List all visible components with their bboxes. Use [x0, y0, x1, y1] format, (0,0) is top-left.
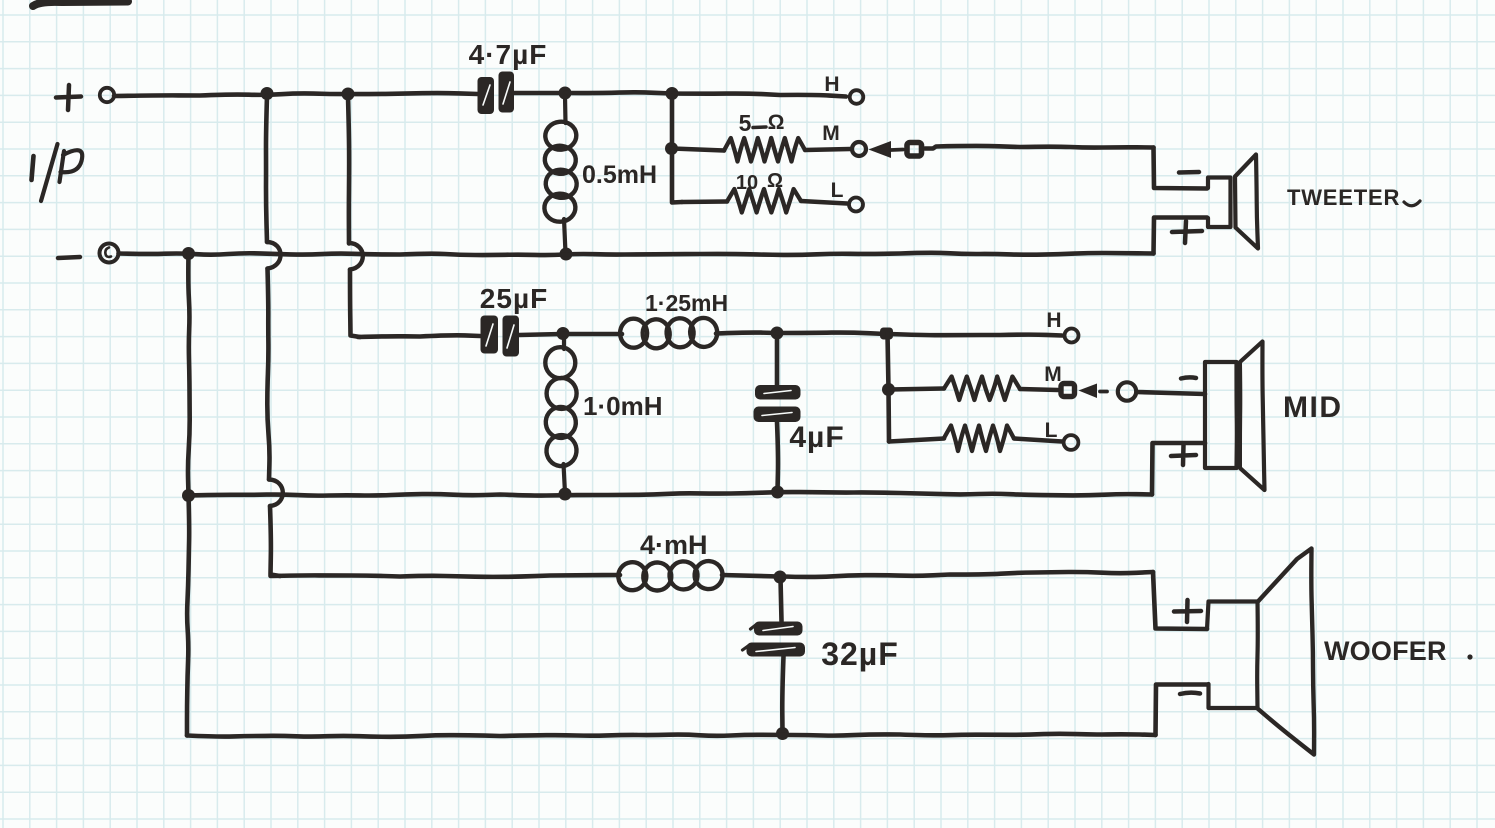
hop over minus rail at mid branch [349, 243, 363, 270]
wire: node T1 to node T2 [565, 92, 672, 93]
capacitor C2 25uF right plate [503, 316, 520, 357]
arrow head pointing left at tweeter M [869, 141, 892, 158]
wire: tweeter plus terminal to minus rail [1154, 218, 1208, 254]
wire: R1 to tweeter M terminal [805, 149, 850, 150]
svg-text:4·7µF: 4·7µF [469, 39, 548, 70]
plus sign of input terminal [56, 85, 81, 110]
wire: node M2 down to capacitor C3 [775, 335, 780, 385]
plus label at woofer [1174, 600, 1201, 622]
capacitor C3 4uF top plate [755, 385, 801, 400]
svg-text:1·0mH: 1·0mH [583, 391, 662, 421]
wire: C1 to node T1 [514, 91, 565, 96]
minus label at tweeter [1179, 170, 1199, 175]
inductor L1 0.5mH vertical coil [563, 96, 568, 123]
wire: left vertical branch from minus rail down [188, 254, 190, 496]
junction dot node W1 top of 32uF [774, 571, 787, 584]
junction dot on plus rail at mid branch [342, 88, 355, 101]
svg-text:H: H [824, 73, 839, 96]
square terminal on mid M link [1061, 384, 1075, 397]
input terminal minus circle [100, 244, 119, 263]
svg-text:TWEETER: TWEETER [1287, 185, 1400, 210]
svg-text:M: M [1044, 363, 1062, 386]
woofer speaker driver rectangle [1207, 602, 1258, 709]
capacitor C3 4uF bottom plate [754, 407, 801, 423]
capacitor C1 4.7uF right plate [499, 72, 515, 113]
capacitor C2 25uF left plate [481, 316, 499, 354]
svg-text:H: H [1046, 309, 1061, 332]
wire: node M3 down to mid resistor branches [888, 334, 889, 389]
wire: minus input rail [119, 253, 1154, 255]
svg-text:M: M [822, 122, 840, 145]
minus label at woofer [1180, 693, 1200, 694]
capacitor C4 32uF bottom plate [747, 643, 806, 657]
wire: node M2 to node M3 [777, 333, 886, 334]
scan artifact: heavy pen mark top-left [33, 2, 128, 7]
wire: tweeter M link to speaker minus terminal [925, 146, 1154, 149]
wire: C3 to mid minus rail [777, 422, 778, 491]
woofer speaker cone [1258, 549, 1315, 755]
wire: mid minus rail [189, 492, 1153, 496]
resistor R1 5 ohm zigzag [724, 138, 805, 162]
junction dot bottom of L1 on minus rail [560, 248, 573, 261]
svg-text:MID: MID [1283, 391, 1343, 424]
square terminal on tweeter M link [907, 143, 922, 157]
junction dot C3 bottom on mid minus rail [771, 486, 784, 499]
wire: mid plus branch vertical with hop [348, 97, 349, 244]
wire: mid speaker plus terminal to mid minus rail [1152, 443, 1205, 495]
wire: node T2 to tweeter H terminal [672, 94, 846, 97]
junction dot on plus rail at woofer branch [261, 87, 274, 100]
wire: node M3 to mid H terminal [889, 334, 1062, 336]
svg-text:4µF: 4µF [789, 421, 844, 454]
svg-text:25µF: 25µF [480, 283, 548, 314]
wire: L3 to node M2 [716, 330, 776, 336]
wire: mid M link to mid speaker minus terminal [1137, 392, 1206, 394]
junction dot minus rail left branch [182, 247, 195, 260]
junction dot on mid minus rail [182, 489, 195, 502]
capacitor C4 32uF top plate [754, 622, 803, 636]
hop over mid minus rail [269, 480, 283, 507]
wire: woofer minus terminal to bottom rail [1156, 685, 1208, 736]
svg-text:L: L [1045, 419, 1058, 442]
svg-text:32µF: 32µF [821, 636, 899, 672]
inductor L3 1.25mH horizontal coil [563, 332, 622, 337]
junction dot bottom of L2 on mid minus rail [559, 488, 572, 501]
svg-text:L: L [831, 179, 844, 202]
svg-text:0.5mH: 0.5mH [582, 161, 657, 189]
tweeter speaker driver rectangle [1208, 178, 1231, 228]
junction dot node M2 top of 4uF [771, 327, 784, 340]
minus label at mid speaker [1181, 377, 1196, 378]
resistor R2 10 ohm zigzag [727, 189, 801, 213]
junction dot at 5 ohm branch [665, 142, 678, 155]
junction dot node M3 [880, 328, 893, 340]
wire: plus input rail to capacitor C1 [114, 93, 478, 96]
terminal circle M tweeter [852, 142, 866, 156]
resistor R3 mid attenuator upper [889, 389, 945, 390]
resistor R4 mid attenuator lower [889, 439, 944, 442]
svg-text:Ω: Ω [768, 111, 785, 134]
wire: node W1 to woofer plus terminal [780, 572, 1153, 577]
junction dot node T2 [666, 87, 679, 100]
svg-text:5: 5 [739, 110, 752, 136]
svg-text:WOOFER: WOOFER [1324, 636, 1447, 666]
terminal circle L tweeter [849, 198, 863, 212]
tweeter speaker cone [1235, 155, 1258, 249]
wire: C2 to node M1 [519, 334, 562, 335]
inductor L2 1.0mH vertical coil [562, 336, 566, 349]
svg-text:4·mH: 4·mH [640, 530, 708, 560]
arrow head pointing left at mid M [1079, 384, 1098, 399]
junction dot node T1 top of 0.5mH [559, 87, 572, 100]
wire: R2 to tweeter L terminal [801, 201, 847, 204]
wire: bottom rail [187, 734, 1156, 737]
minus sign of input terminal [58, 257, 80, 258]
svg-text:1·25mH: 1·25mH [645, 290, 728, 316]
plus label at mid speaker [1171, 445, 1196, 465]
terminal circle H mid [1065, 329, 1079, 343]
plus label at tweeter [1172, 221, 1202, 243]
wire: node W1 down to capacitor C4 [781, 578, 782, 621]
mid speaker driver rectangle [1205, 362, 1237, 468]
mid speaker cone [1238, 363, 1242, 467]
capacitor C1 4.7uF left plate [478, 77, 495, 114]
input terminal plus circle [100, 88, 114, 102]
wire: mid branch to capacitor C2 [358, 335, 480, 337]
hop over minus rail [267, 242, 281, 269]
junction dot C4 bottom on bottom rail [776, 727, 789, 740]
wire: L4 to node W1 [722, 575, 779, 577]
label I/P input [32, 156, 34, 180]
wire: node T2 down to resistor divider [670, 96, 675, 148]
wire: C4 to bottom rail [782, 656, 783, 732]
inductor L4 4mH horizontal coil [617, 561, 648, 592]
junction dot node M1 top of 1.0mH [557, 327, 570, 340]
terminal circle L mid [1064, 435, 1079, 450]
terminal circle on mid M link [1118, 382, 1136, 400]
wire: woofer plus branch vertical with hops [266, 96, 267, 242]
terminal circle H tweeter [850, 90, 864, 104]
junction dot at mid upper resistor [882, 383, 895, 396]
wire: woofer branch horizontal to L4 [271, 575, 621, 577]
